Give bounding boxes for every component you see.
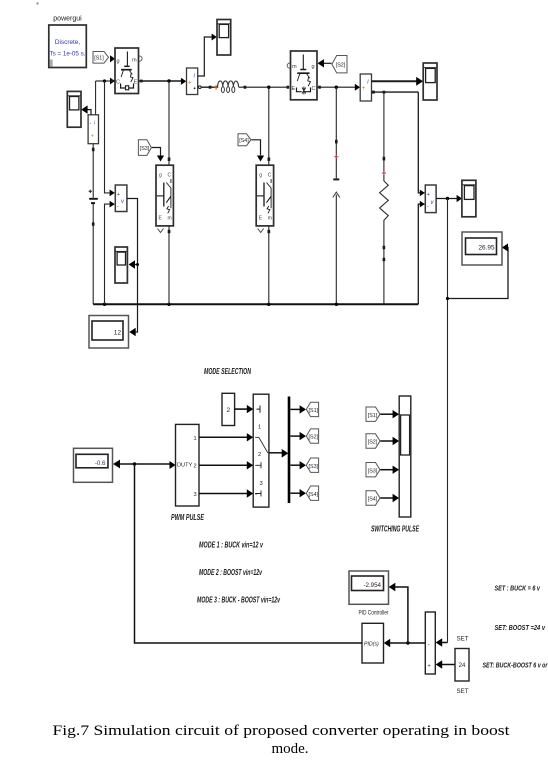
scope Scope5 (inductor current) — [217, 20, 231, 56]
svg-text:SET : BUCK = 6 v: SET : BUCK = 6 v — [495, 586, 541, 593]
scope Scope1 (source current) — [67, 91, 81, 127]
constant block value 24 — [455, 649, 469, 682]
svg-text:PID Controller: PID Controller — [359, 610, 389, 617]
node: junction at (447.5,198.5) — [446, 197, 449, 200]
multiport switch — [253, 394, 269, 507]
from tag [S1] — [93, 52, 115, 64]
svg-text:-: - — [428, 642, 430, 648]
svg-text:PWM PULSE: PWM PULSE — [171, 513, 204, 522]
goto tag [S3] — [306, 458, 318, 472]
svg-text:[S1]: [S1] — [94, 56, 104, 62]
svg-text:SET: SET — [456, 636, 468, 643]
svg-text:g: g — [312, 64, 315, 70]
svg-text:+: + — [188, 81, 192, 87]
svg-text:SET: BUCK-BOOST 6 v or: SET: BUCK-BOOST 6 v or — [483, 663, 548, 670]
from tag [S4] (switching pulse group) — [366, 491, 399, 505]
svg-text:g: g — [259, 173, 262, 179]
svg-text:+: + — [428, 664, 431, 670]
wire: CM1 i-output up to Scope5 — [198, 34, 217, 77]
capacitor C1 — [333, 87, 340, 304]
resistor R1 (load) — [380, 92, 389, 304]
svg-text:12: 12 — [114, 330, 122, 337]
transistor IGBT2 (boost switch, mirrored) — [287, 51, 317, 100]
display D3 value 26.95 — [462, 232, 502, 265]
svg-text:PID(s): PID(s) — [364, 642, 379, 648]
powergui block — [49, 16, 87, 68]
wire: down to CM3 + port — [95, 81, 97, 115]
svg-text:1: 1 — [258, 425, 261, 431]
svg-text:m: m — [268, 216, 272, 222]
svg-text:[S1]: [S1] — [368, 413, 378, 419]
svg-text:+: + — [427, 192, 430, 198]
dc voltage source B1 — [89, 144, 98, 305]
svg-text:MODE 3 : BUCK - BOOST vin=12v: MODE 3 : BUCK - BOOST vin=12v — [197, 596, 280, 605]
svg-text:E: E — [292, 86, 296, 92]
wire: duty line with arrow into D1 — [113, 460, 176, 469]
from tag [S3] — [138, 140, 164, 162]
from tag [S2] (switching pulse group) — [366, 434, 399, 448]
wire: bus up to VM1 - — [418, 201, 425, 304]
svg-text:-: - — [117, 204, 119, 210]
svg-text:C: C — [116, 80, 120, 86]
wire: VM2 out to scope2 / display — [127, 199, 138, 337]
svg-text:DUTY: DUTY — [177, 463, 192, 469]
svg-text:24: 24 — [459, 663, 466, 669]
wire: DUTY out2 to switch — [199, 461, 253, 469]
node: bus junctions — [103, 303, 106, 306]
svg-text:[S4]: [S4] — [368, 497, 378, 503]
transistor IGBT3 (vertical) — [156, 165, 173, 232]
svg-text:C: C — [268, 173, 272, 179]
svg-text:SET: SET — [456, 688, 468, 695]
svg-text:m: m — [168, 216, 172, 222]
svg-text:powergui: powergui — [53, 16, 82, 23]
svg-text:Ts = 1e-05 s.: Ts = 1e-05 s. — [50, 51, 86, 58]
wire: bar to goto [S3] — [290, 461, 306, 469]
wire: junction down to IGBT4 top — [268, 87, 271, 165]
svg-text:g: g — [159, 173, 162, 179]
transistor IGBT1 (buck switch) — [115, 48, 142, 94]
svg-text:+: + — [91, 134, 94, 140]
svg-text:+: + — [117, 192, 120, 198]
wire: inductor to IGBT2 E — [239, 86, 290, 89]
wire: feedback into sum top input — [436, 638, 448, 647]
svg-text:SET: BOOST =24 v: SET: BOOST =24 v — [495, 625, 546, 632]
wire: sum output to PID input — [384, 639, 426, 647]
display D2 value 12 — [89, 316, 129, 349]
voltage measurement VM1 (output voltage) — [425, 185, 436, 213]
node: junction at (169,81) — [167, 79, 170, 82]
svg-text:2: 2 — [227, 407, 231, 414]
wire: long feedback from VM1 node down to sum — [447, 199, 449, 643]
node: junction at (134.5,464) — [133, 462, 136, 465]
wire: bar to goto [S4] — [290, 489, 306, 497]
node: junction at (268.8,87) — [267, 86, 270, 89]
svg-text:C: C — [168, 173, 172, 179]
svg-text:mode.: mode. — [271, 741, 308, 757]
svg-text:-0.6: -0.6 — [95, 460, 106, 467]
display D1 value -0.6 — [74, 448, 113, 482]
wire: branch to display D3 — [448, 244, 509, 299]
svg-text:[S3]: [S3] — [140, 146, 150, 152]
node: junction at (447.5,298.5) — [446, 297, 449, 300]
wire: DUTY out1 to switch — [199, 433, 253, 441]
svg-text:+: + — [362, 86, 366, 92]
node: junction at (137.5,264.5) — [136, 263, 139, 266]
svg-text:MODE SELECTION: MODE SELECTION — [204, 367, 251, 376]
svg-text:Fig.7 Simulation circuit of pr: Fig.7 Simulation circuit of proposed con… — [53, 723, 511, 739]
wire: CM3 i-out to Scope1 — [81, 105, 91, 114]
from tag [S4] — [238, 134, 264, 162]
svg-text:26.95: 26.95 — [479, 245, 495, 252]
svg-text:[S2]: [S2] — [336, 63, 346, 69]
scope SWITCHING PULSE — [399, 396, 411, 517]
scope Scope3 (output voltage) — [462, 180, 476, 217]
constant block value 2 — [222, 393, 235, 425]
wire: CM2 lower output to right rail — [372, 91, 419, 94]
scope Scope2 (input voltage) — [115, 247, 127, 283]
mux bar (signal routing) — [288, 397, 291, 504]
wire: constant 24 to sum bottom input — [436, 660, 455, 669]
wire: IGBT3 E to bus — [168, 226, 171, 304]
from tag [S1] (switching pulse group) — [366, 407, 399, 421]
svg-text:SWITCHING PULSE: SWITCHING PULSE — [371, 525, 419, 534]
wire: bar to goto [S1] — [290, 405, 306, 413]
svg-text:Discrete,: Discrete, — [55, 39, 80, 46]
svg-text:-: - — [90, 121, 92, 127]
subsystem PWM PULSE (DUTY) — [176, 424, 200, 506]
from tag [S3] (switching pulse group) — [366, 463, 399, 477]
svg-text:2: 2 — [194, 464, 197, 470]
from tag [S2] — [318, 56, 348, 73]
wire: switch output to mux bar — [269, 449, 288, 458]
svg-text:m: m — [132, 58, 137, 64]
node: junction at (407.9,643) — [406, 641, 409, 644]
svg-text:MODE 1 : BUCK vin=12 v: MODE 1 : BUCK vin=12 v — [199, 541, 263, 550]
wire: branch up to display D4 — [389, 583, 408, 643]
svg-text:-2.954: -2.954 — [363, 582, 381, 589]
svg-text:[S2]: [S2] — [309, 435, 319, 441]
svg-text:MODE 2 : BOOST vin=12v: MODE 2 : BOOST vin=12v — [199, 568, 262, 577]
svg-text:3: 3 — [260, 481, 263, 487]
goto tag [S2] — [306, 429, 318, 443]
wire: PID output loop back to duty line — [135, 464, 363, 643]
svg-text:1: 1 — [194, 436, 197, 442]
wire: IGBT1 E to CM1 — [139, 78, 186, 85]
wire: CM1 out to inductor — [199, 86, 218, 89]
pid block PID(s) — [362, 623, 384, 663]
current measurement CM2 — [360, 74, 371, 101]
svg-text:C: C — [312, 86, 316, 92]
scope Scope4 (output current) — [423, 63, 437, 100]
wire: IGBT1 C to left drop — [96, 78, 115, 85]
svg-text:[S2]: [S2] — [368, 440, 378, 446]
display D4 value -2.954 — [349, 571, 389, 604]
svg-text:-: - — [427, 204, 429, 210]
wire: VM1 out to Scope3 — [436, 195, 462, 202]
svg-text:[S3]: [S3] — [368, 468, 378, 474]
stray dot artifact top-left — [36, 2, 38, 4]
goto tag [S1] — [306, 402, 318, 416]
wire: IGBT4 E to bus — [268, 226, 271, 304]
wire: VM2 - input from bus — [105, 201, 115, 305]
wire: junction down to IGBT3 top — [168, 81, 171, 165]
svg-text:[S4]: [S4] — [309, 492, 319, 498]
svg-text:g: g — [117, 59, 120, 65]
svg-text:[S3]: [S3] — [309, 464, 319, 470]
sum block — [425, 612, 435, 674]
svg-text:2: 2 — [258, 452, 261, 458]
wire: bar to goto [S2] — [290, 432, 306, 440]
node: junction at (104.5,81) — [103, 79, 106, 82]
bus: bottom return rail — [93, 303, 418, 305]
wire: DUTY out3 to switch — [199, 489, 253, 497]
svg-text:m: m — [292, 64, 297, 70]
wire: constant 2 to switch control — [235, 405, 254, 413]
voltage measurement VM2 (input voltage) — [115, 185, 127, 212]
inductor L1 — [218, 81, 239, 93]
node: junction at (336.3,87) — [335, 86, 338, 89]
wire: CM2 i-output to Scope4 (thick) — [372, 77, 424, 86]
goto tag [S4] — [306, 486, 318, 500]
wire: IGBT2 C to CM2 — [318, 84, 361, 91]
svg-text:[S4]: [S4] — [239, 138, 249, 144]
node: polarity mark + (orange) — [214, 85, 218, 89]
wire: right rail down to VM1 + — [418, 92, 425, 196]
current measurement CM3 (source current, vertical) — [88, 115, 98, 144]
svg-text:[S1]: [S1] — [309, 408, 319, 414]
svg-text:3: 3 — [194, 492, 197, 498]
transistor IGBT4 (vertical) — [256, 165, 273, 232]
current measurement CM1 — [187, 68, 198, 95]
wire: junction down to VM2 + input — [105, 81, 115, 196]
